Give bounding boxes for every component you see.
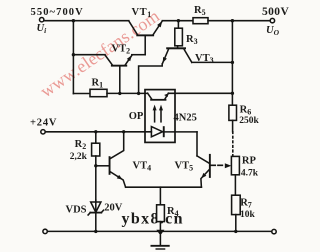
wire R2 top lead bbox=[95, 132, 97, 143]
node phototransistor junction bbox=[231, 92, 234, 95]
wire +24V rail bbox=[45, 131, 151, 133]
node R3 top tap bbox=[177, 19, 180, 22]
node VT4 base tap bbox=[94, 164, 97, 167]
zener diode VDS bbox=[88, 202, 103, 215]
svg-text:550~700V: 550~700V bbox=[31, 7, 84, 18]
wire top rail left bbox=[44, 20, 129, 22]
resistor R4 bbox=[157, 205, 165, 222]
svg-text:4N25: 4N25 bbox=[174, 113, 197, 124]
svg-text:500V: 500V bbox=[262, 6, 289, 18]
resistor R5 bbox=[193, 18, 208, 24]
wire VT3 collector to right rail bbox=[192, 61, 233, 63]
watermark ybx8.cn bbox=[122, 211, 184, 228]
watermark www.elecfans.com bbox=[36, 6, 163, 102]
LED of 4N25 bbox=[151, 126, 164, 137]
wire VT4 base bbox=[96, 165, 109, 167]
ground bbox=[151, 236, 168, 250]
wire R4 bottom lead bbox=[159, 222, 161, 230]
svg-text:RP: RP bbox=[242, 156, 257, 167]
node VT4 collector junction bbox=[122, 130, 125, 133]
svg-text:OP: OP bbox=[129, 111, 144, 122]
wire R2 to zener bbox=[95, 156, 97, 202]
output terminal Uo bbox=[270, 18, 274, 22]
resistor R1 bbox=[90, 89, 107, 96]
transistor VT2 bbox=[105, 55, 132, 93]
svg-text:20V: 20V bbox=[104, 203, 123, 214]
transistor VT4 bbox=[109, 132, 126, 187]
wire R6 to RP solid bbox=[232, 120, 234, 131]
wire top rail right bbox=[208, 20, 270, 22]
wire LED cathode to VT5 collector bbox=[165, 131, 197, 133]
wire zener through lead bbox=[95, 200, 97, 231]
node rail/left-branch junction bbox=[72, 19, 75, 22]
wire R3 top lead bbox=[177, 21, 179, 29]
resistor R2 bbox=[92, 143, 100, 156]
transistor VT3 bbox=[162, 47, 191, 63]
+24V terminal bbox=[41, 130, 45, 134]
wire R6 to RP dashed bbox=[232, 132, 234, 157]
svg-text:+24V: +24V bbox=[30, 117, 57, 128]
wire left vertical branch bbox=[72, 21, 74, 94]
light arrows of 4N25 bbox=[153, 105, 163, 122]
wire top rail mid bbox=[162, 20, 193, 22]
svg-text:4.7k: 4.7k bbox=[241, 168, 259, 178]
node VT3 emitter branch junction bbox=[137, 92, 140, 95]
phototransistor of 4N25 bbox=[148, 93, 169, 101]
wire bottom ground rail bbox=[47, 230, 272, 232]
svg-text:2,2k: 2,2k bbox=[70, 152, 88, 162]
wire R4 top lead bbox=[159, 187, 161, 205]
wire VT5 base dashed to RP bbox=[211, 164, 225, 166]
transistor VT1 bbox=[129, 21, 163, 55]
wire VT5 collector lead bbox=[196, 132, 198, 156]
ground terminal right bbox=[272, 229, 276, 233]
node R2 top junction bbox=[94, 130, 97, 133]
svg-text:250k: 250k bbox=[239, 116, 259, 126]
node VT2 base junction bbox=[118, 92, 121, 95]
op-amp coupler box OP 4N25 bbox=[145, 90, 175, 143]
ground terminal left bbox=[43, 229, 47, 233]
svg-text:10k: 10k bbox=[240, 210, 256, 220]
resistor R6 bbox=[229, 105, 237, 120]
resistor R3 bbox=[175, 28, 183, 46]
node VT2 collector tap bbox=[72, 53, 75, 56]
wire VT3 emitter branch bbox=[139, 64, 163, 93]
wire R3 bottom lead bbox=[177, 46, 179, 48]
wire common emitter rail bbox=[126, 186, 202, 188]
wire R1 left lead bbox=[73, 93, 90, 95]
wire R1 to optocoupler bbox=[107, 92, 148, 94]
potentiometer RP bbox=[231, 156, 239, 174]
node R7 ground junction bbox=[234, 230, 237, 233]
node zener ground junction bbox=[94, 230, 97, 233]
node ground junction triangle bbox=[156, 230, 164, 236]
wire VT2 collector to left branch bbox=[73, 54, 105, 56]
input terminal Ui bbox=[40, 18, 44, 22]
wire RP to R7 bbox=[234, 175, 236, 195]
node output branch junction bbox=[231, 19, 234, 22]
wire R7 bottom lead bbox=[235, 215, 237, 232]
node VT3 collector junction bbox=[231, 61, 234, 64]
wire phototransistor emitter to right rail bbox=[168, 92, 232, 94]
transistor VT5 bbox=[197, 154, 211, 187]
wire right rail upper bbox=[231, 21, 233, 106]
svg-text:VDS: VDS bbox=[66, 205, 87, 216]
resistor R7 bbox=[232, 195, 241, 214]
wire VT2 emitter to VT1 base bbox=[132, 54, 145, 56]
